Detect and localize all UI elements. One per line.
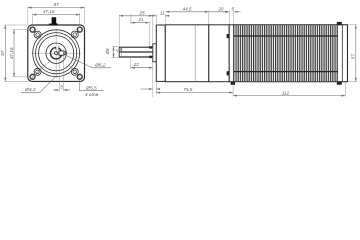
svg-text:47,16: 47,16 <box>9 47 14 59</box>
svg-text:22: 22 <box>133 62 140 67</box>
svg-text:75,5: 75,5 <box>183 87 192 92</box>
svg-text:5: 5 <box>60 84 63 90</box>
svg-text:4 отв: 4 отв <box>85 92 99 98</box>
svg-text:Ø8: Ø8 <box>105 48 110 55</box>
svg-text:47,16: 47,16 <box>43 9 55 14</box>
svg-text:57: 57 <box>54 2 60 8</box>
svg-text:Ø5,5: Ø5,5 <box>85 86 97 92</box>
svg-text:21: 21 <box>137 17 144 22</box>
svg-text:57: 57 <box>0 50 6 56</box>
svg-text:57: 57 <box>350 54 355 60</box>
svg-text:Ø4,2: Ø4,2 <box>24 87 36 93</box>
svg-text:11: 11 <box>160 10 165 15</box>
svg-text:44,5: 44,5 <box>183 6 192 11</box>
svg-text:112: 112 <box>282 90 290 95</box>
svg-text:20: 20 <box>217 6 224 11</box>
svg-text:5: 5 <box>231 6 234 11</box>
svg-text:25: 25 <box>138 10 145 15</box>
svg-text:Ø6,2: Ø6,2 <box>94 63 106 69</box>
